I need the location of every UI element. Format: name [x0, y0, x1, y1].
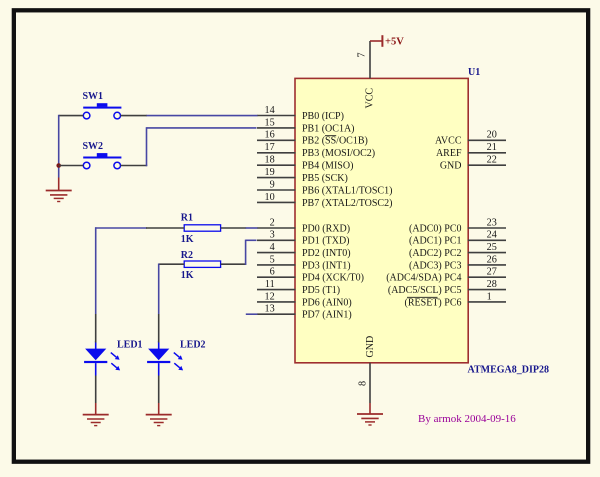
svg-text:4: 4: [270, 242, 275, 253]
svg-text:PD4 (XCK/T0): PD4 (XCK/T0): [302, 273, 364, 284]
switch SW1: [83, 91, 122, 119]
switch SW2: [83, 141, 122, 169]
svg-text:(RESET) PC6: (RESET) PC6: [405, 297, 462, 308]
pin 22 GND: [440, 155, 506, 172]
svg-text:7: 7: [356, 52, 367, 57]
svg-text:26: 26: [487, 254, 497, 265]
LED LED1: [84, 340, 142, 376]
svg-text:PD5 (T1): PD5 (T1): [302, 285, 340, 296]
svg-text:1K: 1K: [181, 270, 194, 281]
pin 1 PC6: [405, 291, 506, 308]
pin 5 PD3: [257, 254, 351, 271]
svg-text:(ADC4/SDA) PC4: (ADC4/SDA) PC4: [386, 273, 461, 284]
wire R2 right stub: [221, 263, 247, 265]
pin 12 PD6: [257, 291, 352, 308]
pin 27 PC4: [386, 267, 506, 284]
node junction at SW2: [56, 163, 61, 168]
svg-text:SW1: SW1: [83, 91, 104, 102]
pin 19 PB5: [257, 167, 348, 184]
svg-text:10: 10: [265, 192, 275, 203]
svg-text:+5V: +5V: [385, 37, 404, 48]
svg-text:(ADC0) PC0: (ADC0) PC0: [409, 223, 462, 234]
wire R2 to pin 3 (navy): [246, 239, 257, 241]
pin 6 PD4: [257, 267, 364, 284]
pin 20 AVCC: [435, 130, 506, 147]
svg-text:AVCC: AVCC: [435, 136, 462, 147]
wire LED1 to ground (red): [95, 403, 97, 415]
svg-text:19: 19: [265, 167, 275, 178]
svg-text:9: 9: [270, 179, 275, 190]
wire LED2 to ground (red): [158, 403, 160, 415]
wire LED1 cathode down: [95, 376, 97, 404]
pin 23 PC0: [409, 217, 506, 234]
svg-text:PD6 (AIN0): PD6 (AIN0): [302, 297, 352, 308]
svg-text:(ADC5/SCL) PC5: (ADC5/SCL) PC5: [388, 285, 462, 296]
svg-text:PD7 (AIN1): PD7 (AIN1): [302, 310, 352, 321]
svg-text:PB4 (MISO): PB4 (MISO): [302, 161, 353, 172]
svg-text:(ADC2) PC2: (ADC2) PC2: [409, 248, 462, 259]
pin 8 GND (bottom): [357, 336, 376, 414]
IC U1 ATMEGA8_DIP28 body: [295, 78, 468, 362]
pin 14 PB0: [257, 105, 344, 122]
pin 15 PB1: [257, 117, 355, 134]
svg-text:GND: GND: [365, 336, 376, 358]
svg-text:13: 13: [265, 304, 275, 315]
ground under LED1: [83, 415, 109, 426]
pin 24 PC1: [409, 230, 506, 247]
pin 26 PC3: [409, 254, 506, 271]
ground at switches: [46, 191, 72, 202]
pin 10 PB7: [257, 192, 392, 209]
svg-text:6: 6: [270, 267, 275, 278]
svg-text:23: 23: [487, 217, 497, 228]
svg-text:17: 17: [265, 142, 275, 153]
svg-text:PB7 (XTAL2/TOSC2): PB7 (XTAL2/TOSC2): [302, 198, 392, 209]
wire R2 vertical up (navy): [245, 240, 247, 265]
wire R2 left stub: [159, 263, 185, 265]
svg-text:LED2: LED2: [180, 340, 206, 351]
wire R1 right stub: [221, 227, 247, 229]
pin 4 PD2: [257, 242, 351, 259]
svg-text:SW2: SW2: [83, 141, 104, 152]
svg-text:PB1 (OC1A): PB1 (OC1A): [302, 123, 355, 134]
pin 17 PB3: [257, 142, 375, 159]
svg-text:21: 21: [487, 142, 497, 153]
svg-text:1: 1: [487, 291, 492, 302]
svg-text:PD3 (INT1): PD3 (INT1): [302, 260, 351, 271]
svg-text:8: 8: [357, 381, 368, 386]
svg-text:GND: GND: [440, 161, 462, 172]
svg-text:15: 15: [265, 117, 275, 128]
wire LED2 cathode down: [158, 376, 160, 404]
svg-text:R2: R2: [181, 250, 193, 261]
wire vertical to ground (red): [58, 178, 60, 191]
ground under IC pin 8: [357, 414, 383, 425]
svg-text:14: 14: [265, 105, 275, 116]
svg-text:3: 3: [270, 230, 275, 241]
svg-text:PB3 (MOSI/OC2): PB3 (MOSI/OC2): [302, 148, 375, 159]
pin 18 PB4: [257, 155, 353, 172]
power +5V: [370, 35, 404, 47]
svg-text:24: 24: [487, 230, 497, 241]
svg-text:20: 20: [487, 130, 497, 141]
svg-text:(ADC3) PC3: (ADC3) PC3: [409, 260, 462, 271]
svg-text:R1: R1: [181, 213, 193, 224]
svg-text:27: 27: [487, 267, 497, 278]
wire SW2 to pin 15 (navy): [147, 127, 257, 129]
svg-text:AREF: AREF: [436, 148, 462, 159]
svg-text:(ADC1) PC1: (ADC1) PC1: [409, 236, 462, 247]
wire SW2 right stub: [121, 165, 148, 167]
resistor R1 1K: [181, 213, 221, 245]
svg-text:PD2 (INT0): PD2 (INT0): [302, 248, 351, 259]
svg-text:2: 2: [270, 217, 275, 228]
svg-text:VCC: VCC: [365, 88, 376, 109]
svg-text:PB6 (XTAL1/TOSC1): PB6 (XTAL1/TOSC1): [302, 185, 392, 196]
pin 16 PB2: [257, 130, 368, 147]
svg-text:5: 5: [270, 254, 275, 265]
wire R1 to pin 2 (navy): [246, 227, 258, 229]
wire R1 left (navy): [95, 227, 147, 229]
svg-text:PB0 (ICP): PB0 (ICP): [302, 111, 344, 122]
wire LED2 anode vertical (dark): [158, 314, 160, 343]
svg-text:28: 28: [487, 279, 497, 290]
wire LED1 anode vertical (navy): [95, 227, 97, 314]
pin 11 PD5: [257, 279, 340, 296]
pin 7 VCC (top): [356, 41, 375, 109]
svg-text:U1: U1: [468, 67, 480, 78]
LED LED2: [147, 340, 205, 376]
pin 21 AREF: [436, 142, 506, 159]
svg-text:11: 11: [265, 279, 275, 290]
svg-text:ATMEGA8_DIP28: ATMEGA8_DIP28: [468, 365, 549, 376]
svg-text:18: 18: [265, 155, 275, 166]
svg-text:By armok 2004-09-16: By armok 2004-09-16: [418, 413, 516, 425]
wire junction to SW2 left: [59, 165, 83, 167]
svg-text:LED1: LED1: [117, 340, 143, 351]
svg-text:PD0 (RXD): PD0 (RXD): [302, 223, 350, 234]
pin 25 PC2: [409, 242, 506, 259]
ground under LED2: [146, 415, 172, 426]
resistor R2 1K: [181, 250, 221, 281]
wire SW1 to pin 14 (navy): [147, 115, 258, 117]
wire LED1 anode vertical (dark): [95, 314, 97, 343]
pin 13 PD7: [257, 304, 352, 321]
svg-text:PD1 (TXD): PD1 (TXD): [302, 236, 350, 247]
svg-text:16: 16: [265, 130, 275, 141]
pin 9 PB6: [257, 179, 392, 196]
svg-text:25: 25: [487, 242, 497, 253]
wire SW1 right stub: [121, 115, 147, 117]
wire vertical left bus (navy): [58, 115, 60, 178]
svg-text:PB2 (SS/OC1B): PB2 (SS/OC1B): [302, 136, 368, 147]
svg-text:PB5 (SCK): PB5 (SCK): [302, 173, 348, 184]
pin 3 PD1: [257, 230, 350, 247]
svg-text:1K: 1K: [181, 234, 194, 245]
wire LED2 anode vertical (navy): [158, 264, 160, 315]
pin 28 PC5: [388, 279, 506, 296]
wire stub at pin 13 (navy): [246, 313, 258, 315]
wire R1 left stub: [146, 227, 184, 229]
pin 2 PD0: [257, 217, 350, 234]
wire SW2 vertical up (navy): [146, 127, 148, 166]
svg-text:22: 22: [487, 155, 497, 166]
wire SW1 left to vertical: [59, 115, 83, 117]
svg-text:12: 12: [265, 291, 275, 302]
